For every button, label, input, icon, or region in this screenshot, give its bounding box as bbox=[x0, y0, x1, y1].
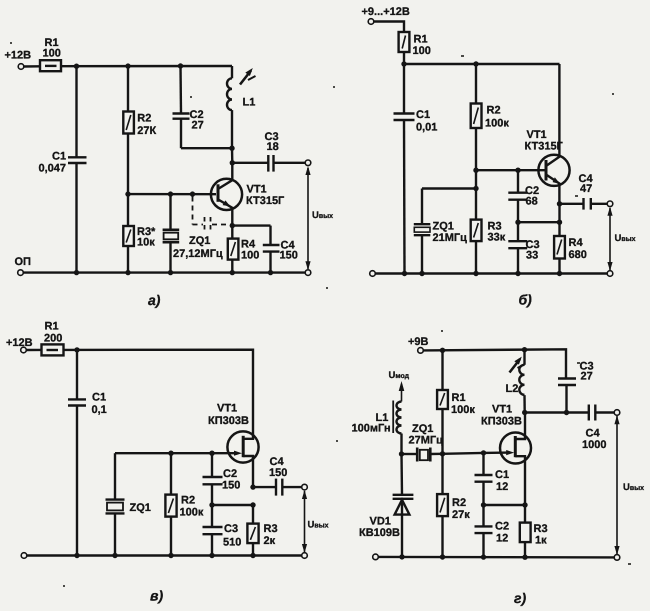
capacitor C4 bbox=[275, 479, 277, 496]
wire C2 upper bbox=[482, 505, 484, 526]
wire C4 upper bbox=[269, 226, 271, 245]
wire R3 upper bbox=[127, 194, 129, 226]
svg-text:18: 18 bbox=[267, 141, 279, 153]
quartz ZQ1 bbox=[106, 498, 125, 500]
bottom rail wire bbox=[27, 554, 302, 556]
capacitor C4 bbox=[588, 405, 590, 421]
wire R3 to rail bbox=[524, 542, 526, 557]
node rail R4 bbox=[230, 270, 235, 275]
wire R3 mid bbox=[475, 170, 477, 219]
resistor R2 bbox=[165, 495, 176, 517]
svg-text:C1: C1 bbox=[52, 151, 66, 163]
svg-text:680: 680 bbox=[569, 249, 587, 261]
svg-text:100: 100 bbox=[413, 45, 431, 57]
output terminal top bbox=[305, 160, 311, 166]
svg-text:VT1: VT1 bbox=[217, 403, 237, 415]
output terminal top bbox=[302, 484, 308, 490]
svg-text:+9...+12В: +9...+12В bbox=[362, 6, 410, 18]
varicap VD1 bbox=[393, 494, 414, 496]
svg-text:47: 47 bbox=[580, 183, 592, 195]
wire L2 lower bbox=[523, 395, 526, 412]
svg-text:R1: R1 bbox=[45, 321, 59, 333]
wire top rail bbox=[404, 63, 560, 65]
svg-text:200: 200 bbox=[44, 333, 62, 345]
wire R2 to rail bbox=[441, 516, 443, 557]
node gate R2 bbox=[168, 451, 173, 456]
svg-text:2к: 2к bbox=[264, 535, 276, 547]
svg-text:12: 12 bbox=[496, 481, 508, 493]
capacitor C3 bbox=[203, 526, 223, 528]
terminal +9V bbox=[418, 348, 424, 354]
wire base row bbox=[476, 169, 546, 171]
svg-text:R2: R2 bbox=[487, 105, 501, 117]
wire top rail bbox=[64, 350, 254, 435]
svg-text:VT1: VT1 bbox=[527, 129, 547, 141]
svg-text:12: 12 bbox=[496, 533, 508, 545]
node rail C3 bbox=[209, 553, 214, 558]
wire C1 upper bbox=[75, 66, 77, 157]
bottom rail wire bbox=[23, 271, 305, 273]
svg-text:0,1: 0,1 bbox=[92, 404, 107, 416]
svg-text:ZQ1: ZQ1 bbox=[130, 502, 151, 514]
VT1 collector bbox=[546, 64, 559, 166]
bottom rail wire bbox=[375, 272, 607, 274]
wire L1 to node bbox=[400, 434, 402, 455]
svg-text:L2: L2 bbox=[506, 383, 519, 395]
wire ZQ1 to rail bbox=[421, 235, 423, 273]
terminal bottom left bbox=[370, 271, 376, 277]
terminal +12V bbox=[18, 64, 24, 70]
node rail R3 bbox=[522, 555, 527, 560]
wire R1 upper bbox=[441, 350, 443, 390]
VT1 base bar bbox=[217, 184, 220, 202]
resistor R1 bbox=[399, 32, 410, 52]
svg-text:КВ109В: КВ109В bbox=[359, 527, 400, 539]
wire output row to C4 bbox=[560, 203, 584, 205]
output terminal top bbox=[614, 410, 620, 416]
wire R2 to rail bbox=[170, 517, 172, 556]
wire node row to source bbox=[484, 504, 526, 506]
svg-text:C2: C2 bbox=[495, 521, 509, 533]
wire C3 upper bbox=[211, 505, 213, 527]
wire C1 upper bbox=[482, 453, 484, 475]
node rail R2 bbox=[440, 554, 445, 559]
wire ZQ1 to rail bbox=[169, 242, 171, 272]
svg-text:ZQ1: ZQ1 bbox=[189, 235, 210, 247]
node row C2/R3 bbox=[209, 502, 214, 507]
capacitor C2 bbox=[203, 476, 223, 478]
node ZQ1 top bbox=[168, 191, 173, 196]
node junction R2-top bbox=[125, 63, 130, 68]
svg-text:в): в) bbox=[150, 588, 163, 604]
wire top rail R1 to L1 bbox=[61, 65, 232, 68]
output arrow line bbox=[307, 168, 309, 269]
wire loop bottom bbox=[181, 147, 232, 149]
svg-text:C3: C3 bbox=[224, 523, 238, 535]
capacitor C4 bbox=[582, 198, 584, 210]
svg-text:1к: 1к bbox=[535, 535, 547, 547]
svg-text:100: 100 bbox=[43, 48, 61, 60]
svg-text:21МГц: 21МГц bbox=[433, 232, 468, 244]
VT1 channel bar bbox=[242, 436, 245, 457]
wire C1 upper bbox=[76, 350, 78, 400]
svg-text:+12В: +12В bbox=[5, 50, 32, 62]
svg-text:0,01: 0,01 bbox=[416, 122, 437, 134]
node drain row bbox=[522, 410, 527, 415]
node drain row C3 bbox=[564, 410, 569, 415]
svg-text:КП303В: КП303В bbox=[481, 416, 522, 428]
node C1 top bbox=[74, 347, 79, 352]
node source row bbox=[522, 502, 527, 507]
svg-text:г): г) bbox=[514, 590, 526, 606]
svg-text:R3: R3 bbox=[264, 523, 278, 535]
inductor L2 bbox=[519, 365, 524, 395]
wire R2 upper bbox=[127, 66, 129, 111]
svg-text:150: 150 bbox=[269, 467, 287, 479]
terminal +9...+12V bbox=[368, 19, 374, 25]
node row C1/C2 bbox=[481, 502, 486, 507]
svg-text:27к: 27к bbox=[452, 509, 470, 521]
resistor R3 bbox=[471, 220, 482, 242]
quartz ZQ1 (series) bbox=[416, 448, 419, 462]
wire VD1 upper bbox=[400, 454, 403, 495]
wire C3 upper bbox=[517, 222, 519, 241]
wire C3 to output bbox=[274, 162, 306, 164]
wire gate row bbox=[115, 452, 212, 454]
dashed wire vertical bbox=[192, 197, 194, 225]
node rail C2 bbox=[481, 554, 486, 559]
capacitor C3 bbox=[267, 155, 269, 172]
svg-text:+12В: +12В bbox=[6, 337, 33, 349]
svg-text:R1: R1 bbox=[414, 34, 428, 46]
wire R4 upper bbox=[558, 222, 560, 236]
node rail C3 bbox=[515, 271, 520, 276]
svg-text:б): б) bbox=[519, 292, 533, 308]
node rail R3 bbox=[473, 271, 478, 276]
node loop bottom bbox=[229, 146, 234, 151]
svg-text:C1: C1 bbox=[495, 469, 509, 481]
wire R1 to rail bbox=[403, 52, 405, 64]
wire output row to C4 bbox=[253, 486, 276, 488]
resistor R2 bbox=[471, 104, 482, 129]
resistor R3 bbox=[247, 524, 258, 544]
output arrow line bbox=[304, 491, 306, 552]
wire ZQ1 upper bbox=[421, 189, 423, 225]
svg-text:ZQ1: ZQ1 bbox=[433, 221, 454, 233]
node rail R2 bbox=[473, 61, 478, 66]
wire R4 to rail bbox=[231, 260, 233, 273]
svg-text:27МГц: 27МГц bbox=[409, 435, 444, 447]
wire base row bbox=[128, 193, 216, 195]
wire C4 to terminal bbox=[282, 486, 302, 488]
capacitor C2 bbox=[508, 191, 527, 193]
svg-text:100к: 100к bbox=[180, 507, 204, 519]
inductor L1 bbox=[397, 402, 402, 434]
svg-text:100: 100 bbox=[241, 250, 259, 262]
svg-text:27К: 27К bbox=[137, 125, 156, 137]
wire R3 upper bbox=[524, 505, 526, 523]
node rail R4 bbox=[557, 271, 562, 276]
node dashed branch bbox=[190, 191, 195, 196]
capacitor C1 bbox=[394, 112, 415, 114]
wire emitter column bbox=[558, 204, 560, 222]
svg-text:R2: R2 bbox=[137, 113, 151, 125]
svg-text:27: 27 bbox=[192, 120, 204, 132]
svg-text:+9В: +9В bbox=[408, 336, 429, 348]
node gate row R1 bbox=[440, 451, 445, 456]
wire ZQ1 to R1 column bbox=[430, 453, 442, 456]
svg-text:VT1: VT1 bbox=[247, 184, 267, 196]
svg-text:VT1: VT1 bbox=[492, 404, 512, 416]
resistor R1 bbox=[40, 60, 61, 71]
node rail R1 bbox=[440, 348, 445, 353]
wire terminal to R1 bbox=[26, 349, 41, 352]
svg-text:R2: R2 bbox=[452, 497, 466, 509]
svg-text:510: 510 bbox=[223, 537, 241, 549]
svg-text:R4: R4 bbox=[569, 237, 584, 249]
wire VD1 anode through triangle bbox=[401, 499, 403, 557]
wire C4 to terminal bbox=[595, 411, 614, 413]
svg-text:0,047: 0,047 bbox=[39, 163, 67, 175]
wire top rail bbox=[423, 349, 566, 378]
node collector / C3 bbox=[230, 160, 235, 165]
VT1 gate arrow bbox=[212, 452, 238, 454]
output arrow line bbox=[609, 208, 611, 270]
inductor L1 core line bbox=[392, 401, 394, 434]
VT1 source tap bbox=[243, 456, 253, 487]
wire emitter row to C4 bbox=[232, 224, 270, 226]
wire R3 to rail bbox=[252, 543, 254, 555]
capacitor C4 bbox=[263, 244, 280, 246]
node rail ZQ1 bbox=[112, 553, 117, 558]
node C2 top bbox=[515, 168, 520, 173]
capacitor C1 bbox=[475, 474, 493, 476]
wire C1 lower bbox=[76, 406, 78, 556]
wire L1 bottom to collector node bbox=[231, 148, 234, 163]
wire R2 to base row bbox=[127, 134, 129, 195]
svg-text:33: 33 bbox=[526, 250, 538, 262]
transistor VT1 circle bbox=[227, 431, 258, 462]
VT1 emitter with arrow bbox=[546, 175, 559, 204]
resistor R1 bbox=[437, 390, 448, 409]
svg-text:КТ315Г: КТ315Г bbox=[246, 195, 285, 207]
wire ZQ1 horizontal bbox=[422, 187, 476, 189]
VT1 drain tap bbox=[243, 435, 253, 439]
capacitor C3 bbox=[508, 240, 527, 242]
node rail C1 bbox=[74, 270, 79, 275]
dashed wire horizontal bbox=[193, 224, 204, 226]
capacitor C1 bbox=[68, 398, 86, 400]
node rail ZQ1 bbox=[419, 271, 424, 276]
wire node to ZQ1 bbox=[402, 453, 418, 455]
svg-text:100к: 100к bbox=[485, 118, 509, 130]
output terminal bottom bbox=[614, 555, 620, 561]
svg-text:C1: C1 bbox=[92, 392, 106, 404]
wire R4 upper bbox=[231, 226, 233, 239]
wire C2 upper bbox=[211, 453, 213, 477]
svg-text:ОП: ОП bbox=[15, 256, 32, 268]
wire R3 to rail bbox=[127, 246, 129, 273]
bottom rail wire bbox=[378, 556, 614, 559]
terminal +12V bbox=[21, 347, 27, 353]
resistor R2 bbox=[437, 494, 448, 516]
transistor VT1 circle bbox=[500, 433, 531, 464]
resistor R3 bbox=[520, 523, 531, 543]
output terminal bottom bbox=[302, 553, 308, 559]
transistor VT1 circle bbox=[538, 155, 569, 186]
resistor R4 bbox=[554, 236, 565, 259]
Umod arrow bbox=[401, 384, 403, 402]
resistor R2 bbox=[123, 112, 134, 134]
svg-text:L1: L1 bbox=[243, 97, 256, 109]
wire C4 to terminal bbox=[591, 203, 608, 205]
node rail R3 bbox=[125, 270, 130, 275]
wire ZQ1 to rail bbox=[114, 513, 116, 555]
wire L1 to loop bottom bbox=[231, 110, 233, 148]
wire R2 to base row bbox=[475, 128, 477, 170]
wire C2 bottom row bbox=[518, 221, 560, 223]
wire ZQ1 upper bbox=[169, 194, 171, 230]
resistor R1 bbox=[42, 344, 64, 355]
node rail L2 bbox=[522, 347, 527, 352]
wire C2 column upper bbox=[179, 66, 182, 114]
wire C3 lower bbox=[517, 248, 519, 273]
node output row bbox=[250, 484, 255, 489]
node rail C1 bbox=[402, 271, 407, 276]
node rail C1 bbox=[74, 553, 79, 558]
VT1 collector bbox=[218, 163, 232, 189]
wire to C3 bbox=[232, 162, 268, 164]
wire R2 upper bbox=[441, 454, 443, 494]
svg-text:R3: R3 bbox=[534, 523, 548, 535]
capacitor C1 bbox=[68, 156, 87, 158]
svg-text:C1: C1 bbox=[416, 109, 430, 121]
wire terminal to R1 bbox=[24, 65, 40, 68]
node base row left bbox=[473, 168, 478, 173]
wire C1 lower bbox=[403, 120, 406, 274]
node emitter lower bbox=[557, 220, 562, 225]
VT1 source tap bbox=[515, 456, 525, 505]
node gate C2 bbox=[209, 451, 214, 456]
dashed optional capacitor bbox=[204, 217, 206, 233]
svg-text:R1: R1 bbox=[452, 392, 466, 404]
wire R2 upper bbox=[170, 453, 172, 494]
wire R2 upper bbox=[475, 64, 477, 104]
wire C2 upper bbox=[517, 170, 519, 193]
node emitter row bbox=[230, 223, 235, 228]
wire gate row bbox=[443, 452, 484, 455]
wire R3 to rail bbox=[475, 241, 477, 273]
wire C1 lower bbox=[75, 163, 77, 273]
svg-text:27,12МГц: 27,12МГц bbox=[173, 248, 223, 260]
wire C4 lower bbox=[269, 252, 271, 273]
node rail left bbox=[401, 61, 406, 66]
VT1 channel bar bbox=[514, 436, 517, 457]
node L1/ZQ1/VD1 bbox=[399, 451, 404, 456]
output terminal top bbox=[607, 201, 613, 207]
svg-text:150: 150 bbox=[222, 480, 240, 492]
terminal OP (bottom left) bbox=[18, 270, 24, 276]
resistor R3 bbox=[123, 226, 134, 246]
inductor L1 bbox=[227, 78, 232, 110]
VT1 gate arrow wire bbox=[484, 451, 511, 454]
L2 adjust arrow bbox=[510, 359, 521, 373]
node rail ZQ1 bbox=[168, 270, 173, 275]
wire C2 lower bbox=[180, 119, 182, 149]
terminal bottom left bbox=[21, 553, 27, 559]
svg-text:ZQ1: ZQ1 bbox=[412, 423, 433, 435]
quartz ZQ1 bbox=[414, 223, 431, 225]
svg-text:100к: 100к bbox=[451, 404, 475, 416]
wire C1 upper bbox=[403, 64, 405, 114]
svg-text:27: 27 bbox=[581, 371, 593, 383]
output terminal bottom bbox=[305, 270, 311, 276]
wire L2 upper bbox=[523, 350, 525, 365]
svg-text:а): а) bbox=[148, 292, 161, 308]
svg-text:10к: 10к bbox=[137, 237, 155, 249]
svg-text:33к: 33к bbox=[488, 232, 506, 244]
svg-text:C2: C2 bbox=[223, 468, 237, 480]
output terminal bottom bbox=[607, 271, 613, 277]
wire R1 to gate row bbox=[441, 409, 443, 454]
svg-text:VD1: VD1 bbox=[370, 516, 391, 528]
capacitor C2 bbox=[173, 112, 190, 114]
capacitor C2 bbox=[475, 525, 493, 527]
svg-text:C4: C4 bbox=[586, 428, 601, 440]
wire drain row to C4 bbox=[525, 411, 589, 413]
terminal bottom left bbox=[373, 554, 379, 560]
node ZQ1/R3 column bbox=[473, 186, 478, 191]
svg-text:КП303В: КП303В bbox=[208, 415, 249, 427]
svg-text:150: 150 bbox=[280, 250, 298, 262]
wire node row bbox=[212, 504, 253, 506]
node rail R2 bbox=[168, 553, 173, 558]
node rail R3 bbox=[250, 553, 255, 558]
wire C3 lower bbox=[565, 385, 567, 413]
node C2 bottom bbox=[515, 220, 520, 225]
node rail C4 bbox=[268, 270, 273, 275]
output arrow line bbox=[616, 416, 618, 554]
quartz ZQ1 bbox=[163, 229, 180, 232]
svg-text:100мГн: 100мГн bbox=[352, 423, 391, 435]
svg-text:1000: 1000 bbox=[582, 439, 606, 451]
L1 adjust arrow bbox=[240, 71, 251, 85]
svg-text:R2: R2 bbox=[181, 495, 195, 507]
capacitor C3 bbox=[558, 377, 576, 379]
wire C2 lower bbox=[482, 533, 484, 557]
VT1 drain tap bbox=[515, 413, 525, 440]
wire R4 to rail bbox=[558, 259, 560, 274]
wire C2 lower bbox=[211, 484, 213, 505]
wire C3 lower bbox=[211, 534, 213, 555]
wire C2 lower bbox=[517, 200, 519, 223]
node base row left bbox=[125, 191, 130, 196]
wire rail corner to L1 bbox=[231, 66, 233, 78]
transistor VT1 circle bbox=[211, 179, 242, 210]
VT1 base bar bbox=[545, 160, 548, 181]
wire C1 lower bbox=[482, 482, 484, 505]
node junction C2-top bbox=[178, 63, 183, 68]
resistor R4 bbox=[228, 239, 239, 260]
svg-text:68: 68 bbox=[526, 196, 538, 208]
node junction C1-top bbox=[74, 63, 79, 68]
node emitter / output row bbox=[557, 201, 562, 206]
wire R3 upper bbox=[252, 505, 254, 524]
wire ZQ1 upper bbox=[114, 453, 116, 499]
node gate row C1 bbox=[481, 450, 486, 455]
svg-text:КТ315Г: КТ315Г bbox=[525, 141, 564, 153]
node rail VD1 bbox=[399, 554, 404, 559]
